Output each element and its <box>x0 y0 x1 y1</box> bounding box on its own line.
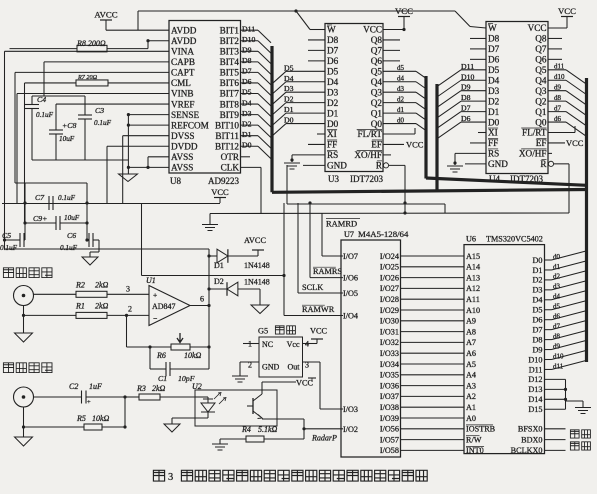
wire from analog to RAMWR node <box>142 275 285 277</box>
wire R3 to opto <box>160 396 195 398</box>
svg-text:EF: EF <box>371 140 382 150</box>
svg-text:A13: A13 <box>466 273 480 282</box>
svg-text:I/O58: I/O58 <box>380 446 399 455</box>
svg-text:D3: D3 <box>327 87 339 97</box>
svg-text:TMS320VC5402: TMS320VC5402 <box>486 235 543 244</box>
svg-text:XO/HF: XO/HF <box>519 149 547 159</box>
svg-text:0.1uF: 0.1uF <box>94 119 112 127</box>
svg-text:A7: A7 <box>466 338 476 347</box>
wire R1 to -input <box>107 314 149 316</box>
svg-text:I/O3: I/O3 <box>343 405 358 414</box>
svg-text:BIT12: BIT12 <box>215 141 239 151</box>
svg-text:D6: D6 <box>327 56 339 66</box>
wire U4 XI stub <box>478 132 486 134</box>
IC U7 M4A5-128/64 box <box>341 240 401 457</box>
svg-text:Q7: Q7 <box>371 46 383 56</box>
svg-text:I/O6: I/O6 <box>343 274 358 283</box>
svg-text:Q4: Q4 <box>371 77 383 87</box>
svg-text:D3: D3 <box>242 109 252 118</box>
capacitor C7 <box>48 196 50 210</box>
svg-text:D8: D8 <box>488 34 500 44</box>
wire U3 EF to VCC <box>383 143 404 145</box>
svg-text:G5: G5 <box>258 327 268 336</box>
svg-text:A2: A2 <box>466 392 476 401</box>
svg-text:D1: D1 <box>532 266 542 275</box>
svg-text:VCC: VCC <box>211 187 229 197</box>
svg-text:D5: D5 <box>532 306 542 315</box>
U4 inputs D5..D0 from bus with labels D11..D6 <box>461 69 486 71</box>
svg-text:d5: d5 <box>397 64 405 72</box>
ground G5 earth <box>232 375 248 377</box>
svg-text:D5: D5 <box>327 67 339 77</box>
svg-text:Q3: Q3 <box>535 86 547 96</box>
wire U4 XO/HF stub <box>548 152 552 154</box>
ground triangle D2 <box>251 305 269 314</box>
wire serial out <box>545 449 566 451</box>
IC U4 IDT7203 box <box>486 22 548 174</box>
svg-text:d7: d7 <box>553 322 561 330</box>
wire LED cathode down <box>207 412 209 418</box>
svg-text:R/W: R/W <box>466 435 482 444</box>
label radar trigger (leida chufa) <box>3 363 13 373</box>
svg-text:VCC: VCC <box>310 327 328 336</box>
svg-text:Q4: Q4 <box>535 75 547 85</box>
wire U3 D7 stub <box>308 49 325 51</box>
ground earth mid-left <box>202 224 218 226</box>
wire AVSS2 <box>148 166 169 168</box>
wire C2 to R3 <box>86 396 125 398</box>
svg-text:VCC: VCC <box>528 23 547 33</box>
U4 outputs Q5..Q0 to right bus with labels d11..d6 <box>548 69 566 71</box>
svg-text:A3: A3 <box>466 381 476 390</box>
wire serial out <box>545 428 566 430</box>
phototransistor inside opto <box>252 398 254 414</box>
svg-text:A10: A10 <box>466 306 480 315</box>
svg-text:RAMRD: RAMRD <box>326 219 357 229</box>
svg-text:I/O35: I/O35 <box>380 371 399 380</box>
wire AVDD1 <box>106 29 169 31</box>
wire U3 RS to ground <box>292 154 325 156</box>
wire output up to feed <box>208 249 210 306</box>
svg-text:BDX0: BDX0 <box>521 435 542 444</box>
svg-text:XI: XI <box>488 128 498 138</box>
svg-text:Out: Out <box>288 363 301 372</box>
svg-text:d9: d9 <box>554 84 562 92</box>
svg-text:D6: D6 <box>488 55 500 65</box>
svg-text:D2: D2 <box>242 119 252 128</box>
svg-text:d3: d3 <box>397 85 405 93</box>
svg-text:1uF: 1uF <box>89 382 102 391</box>
wire U3 D6 stub <box>308 60 325 62</box>
ground triangle BNC video <box>15 333 33 342</box>
svg-text:AVSS: AVSS <box>171 152 193 162</box>
svg-text:U1: U1 <box>146 276 156 285</box>
svg-text:AVSS: AVSS <box>171 163 193 173</box>
wire BNC trigger to C2 <box>34 396 82 398</box>
wire to D2 <box>209 288 227 290</box>
bus horizontal upper <box>426 178 587 185</box>
svg-text:d0: d0 <box>397 116 405 124</box>
svg-text:C9+: C9+ <box>33 214 47 223</box>
wire serial out <box>545 439 566 441</box>
capacitor C1 <box>165 362 167 376</box>
svg-text:A4: A4 <box>466 371 476 380</box>
svg-text:D1: D1 <box>488 107 500 117</box>
svg-text:D4: D4 <box>242 98 252 107</box>
svg-text:BIT6: BIT6 <box>220 78 240 88</box>
svg-text:D2: D2 <box>214 277 224 286</box>
U3 R pin bubble and RAMRD net <box>383 163 388 168</box>
wire U4 GND stub <box>465 163 486 165</box>
label shuju (data) <box>570 430 579 438</box>
svg-text:AD847: AD847 <box>152 302 176 311</box>
svg-text:D4: D4 <box>488 75 500 85</box>
svg-text:+: + <box>153 291 157 300</box>
svg-text:Q2: Q2 <box>371 98 383 108</box>
wire AVCC to AVDD <box>105 20 107 30</box>
svg-text:VCC: VCC <box>296 379 314 388</box>
svg-text:D2: D2 <box>488 96 500 106</box>
svg-text:BIT2: BIT2 <box>220 36 240 46</box>
power bar VCC opto <box>308 377 316 379</box>
wire U4 D8 stub <box>470 37 486 39</box>
capacitor C3 <box>78 114 92 116</box>
svg-text:C5: C5 <box>2 231 11 240</box>
svg-text:AVCC: AVCC <box>94 10 117 20</box>
svg-text:D7: D7 <box>461 104 471 113</box>
wire RAMRD net horizontal <box>210 212 569 215</box>
svg-text:D10: D10 <box>528 355 542 364</box>
wire slope to U4 W pin <box>455 11 470 27</box>
bus ADC data vertical <box>270 46 273 192</box>
wire to D1 <box>209 255 217 257</box>
svg-text:Vcc: Vcc <box>287 340 300 349</box>
svg-text:D10: D10 <box>461 72 475 81</box>
capacitor C2 <box>81 391 83 404</box>
wire CLK <box>241 166 262 168</box>
svg-text:D4: D4 <box>327 77 339 87</box>
svg-text:RS: RS <box>327 150 338 160</box>
svg-text:A12: A12 <box>466 284 480 293</box>
svg-text:I/O7: I/O7 <box>343 252 358 261</box>
svg-text:6: 6 <box>200 295 204 304</box>
connector BNC radar video <box>14 286 34 306</box>
svg-text:D9: D9 <box>242 46 252 55</box>
svg-text:FL/RT: FL/RT <box>522 128 547 138</box>
resistor R2 <box>76 291 107 297</box>
wire stub x287 <box>286 165 288 204</box>
wire R5 parallel <box>124 397 126 427</box>
wire to R1 <box>24 314 77 316</box>
svg-text:C4: C4 <box>37 95 46 104</box>
wire U4 FL/RT <box>548 132 575 134</box>
wire U4 D6 stub <box>470 58 486 60</box>
svg-text:A15: A15 <box>466 252 480 261</box>
power bar VCC U8 <box>214 197 226 199</box>
svg-text:IDT7203: IDT7203 <box>350 174 383 184</box>
svg-text:Q6: Q6 <box>371 56 383 66</box>
wire U4 RS to ground <box>455 152 486 154</box>
svg-text:SCLK: SCLK <box>302 283 323 292</box>
wire output down to C1 <box>208 306 210 370</box>
bus horizontal lower <box>272 190 587 193</box>
svg-text:GND: GND <box>488 159 508 169</box>
svg-text:R2: R2 <box>75 281 85 290</box>
svg-text:I/O57: I/O57 <box>380 435 399 444</box>
wire G5 GND <box>240 361 259 363</box>
svg-text:D7: D7 <box>327 46 339 56</box>
svg-text:D9: D9 <box>461 83 471 92</box>
svg-text:D13: D13 <box>528 385 542 394</box>
svg-text:GND: GND <box>327 161 347 171</box>
svg-text:BIT5: BIT5 <box>220 68 240 78</box>
svg-text:BIT7: BIT7 <box>220 89 240 99</box>
wire U4 Q6 stub <box>548 58 562 60</box>
svg-text:CML: CML <box>171 78 191 88</box>
svg-text:D11: D11 <box>242 24 255 33</box>
svg-text:A1: A1 <box>466 403 476 412</box>
svg-text:2kΩ: 2kΩ <box>95 302 109 311</box>
capacitor C9 <box>55 216 57 230</box>
svg-text:5.1kΩ: 5.1kΩ <box>258 425 278 434</box>
svg-text:D1: D1 <box>242 130 252 139</box>
svg-text:C2: C2 <box>69 382 78 391</box>
wire U3 XI stub <box>317 133 325 135</box>
svg-text:d1: d1 <box>553 263 561 271</box>
svg-text:R8 200Ω: R8 200Ω <box>76 39 106 48</box>
wire CML right <box>108 82 169 84</box>
wire VINB <box>17 93 169 95</box>
svg-text:d6: d6 <box>554 115 562 123</box>
svg-text:R4: R4 <box>241 425 251 434</box>
svg-text:10uF: 10uF <box>59 135 75 143</box>
wire CAPT <box>15 71 169 73</box>
svg-text:D0: D0 <box>488 117 500 127</box>
svg-text:R6: R6 <box>156 351 166 360</box>
svg-text:U3: U3 <box>328 174 339 184</box>
svg-text:A9: A9 <box>466 317 476 326</box>
svg-text:D0: D0 <box>532 256 542 265</box>
svg-text:−: − <box>153 314 157 323</box>
wires U7 to U6 address lines <box>401 255 465 257</box>
wire collector to VCC <box>262 381 296 383</box>
svg-text:SENSE: SENSE <box>171 110 199 120</box>
svg-text:Q1: Q1 <box>371 108 383 118</box>
svg-text:R5: R5 <box>76 414 86 423</box>
svg-text:3: 3 <box>126 285 130 294</box>
svg-text:D11: D11 <box>461 62 474 71</box>
svg-text:I/O33: I/O33 <box>380 349 399 358</box>
svg-text:D8: D8 <box>327 35 339 45</box>
wire rail right segment <box>287 203 445 205</box>
svg-text:Q8: Q8 <box>371 35 383 45</box>
svg-text:D0: D0 <box>242 140 252 149</box>
svg-text:DVSS: DVSS <box>171 131 195 141</box>
wire RadarP to I/O2 <box>304 428 343 430</box>
svg-text:I/O32: I/O32 <box>380 338 399 347</box>
svg-text:D2: D2 <box>327 98 339 108</box>
wire output to VINA feed <box>5 248 210 250</box>
svg-text:0.1uF: 0.1uF <box>36 111 54 119</box>
svg-text:AVDD: AVDD <box>171 25 197 35</box>
svg-text:Q6: Q6 <box>535 55 547 65</box>
ADC data bits D11..D0 to bus <box>241 29 259 31</box>
wire OTR stub <box>241 156 251 158</box>
wire U4 Q8 stub <box>548 37 562 39</box>
svg-text:BFSX0: BFSX0 <box>518 425 543 434</box>
svg-text:U7: U7 <box>344 230 354 239</box>
svg-text:BIT1: BIT1 <box>220 25 240 35</box>
bus U3 outputs vertical <box>424 76 427 179</box>
wire AVSS1 <box>148 156 169 158</box>
svg-text:VCC: VCC <box>395 6 413 16</box>
svg-text:I/O4: I/O4 <box>343 312 358 321</box>
U4 R pin bubble wire down <box>548 161 553 166</box>
wire G5 NC stub <box>243 343 259 345</box>
wire U4 FF stub <box>470 142 486 144</box>
U3 inputs D5..D0 from bus <box>286 70 325 72</box>
svg-text:d7: d7 <box>554 104 562 112</box>
svg-text:d5: d5 <box>553 303 561 311</box>
svg-text:D5: D5 <box>488 65 500 75</box>
svg-text:I/O30: I/O30 <box>380 317 399 326</box>
wire AVDD2 from R8 <box>148 40 169 42</box>
svg-text:U6: U6 <box>466 235 476 244</box>
svg-text:C1: C1 <box>158 374 167 383</box>
label shuchu (output) <box>570 442 579 450</box>
wire U3 FF stub <box>308 143 325 145</box>
svg-text:IDT7203: IDT7203 <box>510 174 543 184</box>
wire VREF <box>56 103 169 105</box>
wire to R5 <box>24 426 85 428</box>
svg-text:D6: D6 <box>532 316 542 325</box>
svg-text:VINA: VINA <box>171 47 194 57</box>
svg-text:Q0: Q0 <box>535 117 547 127</box>
svg-text:D5: D5 <box>242 88 252 97</box>
wire DVDD <box>107 145 169 147</box>
svg-text:D0: D0 <box>327 119 339 129</box>
svg-text:FF: FF <box>327 140 337 150</box>
svg-text:BIT3: BIT3 <box>220 47 240 57</box>
wire U4 EF to VCC <box>548 142 565 144</box>
svg-text:A14: A14 <box>466 263 480 272</box>
wire REFCOM <box>128 124 169 126</box>
wire U3 XO/HF stub <box>383 154 391 156</box>
svg-text:D8: D8 <box>242 56 252 65</box>
svg-text:d1: d1 <box>397 106 405 114</box>
svg-text:D8: D8 <box>461 93 471 102</box>
svg-text:I/O39: I/O39 <box>380 414 399 423</box>
svg-text:R: R <box>540 159 547 169</box>
svg-text:I/O25: I/O25 <box>380 263 399 272</box>
svg-text:D4: D4 <box>284 74 294 83</box>
svg-text:I/O38: I/O38 <box>380 403 399 412</box>
svg-text:BIT9: BIT9 <box>220 110 240 120</box>
svg-text:Q3: Q3 <box>371 87 383 97</box>
svg-text:D10: D10 <box>242 35 256 44</box>
svg-text:D7: D7 <box>532 325 542 334</box>
svg-text:Q5: Q5 <box>535 65 547 75</box>
wire SCLK to I/O5 <box>298 292 343 294</box>
svg-text:I/O2: I/O2 <box>343 425 358 434</box>
svg-text:Q7: Q7 <box>535 44 547 54</box>
svg-text:D1: D1 <box>327 108 339 118</box>
svg-text:AD9223: AD9223 <box>208 176 239 186</box>
optocoupler U2 box <box>195 390 277 426</box>
svg-text:d4: d4 <box>397 75 405 83</box>
wire U4 VCC pin <box>548 27 567 29</box>
svg-text:D3: D3 <box>284 84 294 93</box>
LED inside opto <box>201 399 215 412</box>
svg-text:3: 3 <box>168 472 173 483</box>
wire R8 left <box>10 48 78 50</box>
svg-text:10uF: 10uF <box>64 214 80 222</box>
svg-text:R: R <box>376 161 383 171</box>
svg-text:I/O34: I/O34 <box>380 360 399 369</box>
wire RAMWR to I/O4 <box>284 315 343 317</box>
svg-text:A6: A6 <box>466 349 476 358</box>
wire R8 right <box>107 48 148 50</box>
svg-text:W: W <box>327 25 336 35</box>
svg-text:CLK: CLK <box>221 163 240 173</box>
svg-text:D12: D12 <box>528 375 542 384</box>
svg-text:d11: d11 <box>554 63 565 71</box>
svg-text:CAPB: CAPB <box>171 57 195 67</box>
wire CML left <box>25 82 77 84</box>
wire BNC trigger ground leg <box>23 407 25 437</box>
wire cap rail y96 <box>32 95 85 97</box>
svg-text:VCC: VCC <box>566 138 584 148</box>
wire U3 FL/RT <box>383 133 415 135</box>
ground triangle BNC trigger <box>15 437 33 446</box>
resistor R8 <box>77 45 107 52</box>
power VCC above U4 <box>561 16 573 18</box>
wire opamp output <box>190 305 209 307</box>
node junction on top rail <box>294 9 297 12</box>
svg-text:VREF: VREF <box>171 99 195 109</box>
wire drop to earth <box>209 214 211 225</box>
svg-text:d10: d10 <box>553 352 564 360</box>
svg-text:DVDD: DVDD <box>171 141 198 151</box>
svg-text:D14: D14 <box>528 395 542 404</box>
svg-text:+: + <box>87 399 91 406</box>
wire R3 into opto LED <box>195 396 208 398</box>
wire G5 Vcc <box>303 343 318 345</box>
bus DSP data vertical right <box>585 78 588 362</box>
svg-text:BIT11: BIT11 <box>215 131 239 141</box>
svg-text:d4: d4 <box>553 293 561 301</box>
wire RAMRD down to U7 I/O7 <box>321 213 323 256</box>
ground U6 data earth <box>575 407 591 409</box>
svg-text:D6: D6 <box>461 114 471 123</box>
svg-text:2kΩ: 2kΩ <box>152 384 166 393</box>
svg-text:I/O31: I/O31 <box>380 327 399 336</box>
svg-text:BIT10: BIT10 <box>215 120 239 130</box>
svg-text:Q2: Q2 <box>535 96 547 106</box>
svg-text:D0: D0 <box>284 116 294 125</box>
svg-text:AVDD: AVDD <box>171 36 197 46</box>
svg-text:A5: A5 <box>466 360 476 369</box>
svg-text:d10: d10 <box>554 73 565 81</box>
svg-text:C6: C6 <box>67 231 76 240</box>
wire U3 Q6 stub <box>383 60 400 62</box>
svg-text:D1: D1 <box>284 105 294 114</box>
caption: figure 3 radar video signal digital acquisition and detection hardware circuit <box>153 470 164 481</box>
svg-text:d11: d11 <box>553 362 564 370</box>
svg-text:D3: D3 <box>488 86 500 96</box>
svg-text:D1: D1 <box>214 261 224 270</box>
diode D1 1N4148 <box>217 249 228 263</box>
